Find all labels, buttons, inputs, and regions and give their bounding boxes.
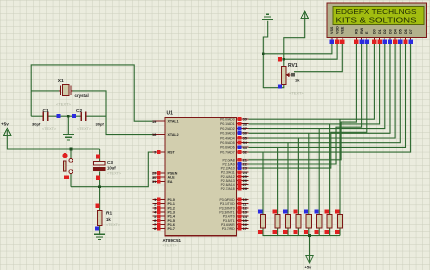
svg-text:P0.2/AD2: P0.2/AD2 <box>220 127 235 131</box>
svg-text:<TEXT>: <TEXT> <box>163 243 178 247</box>
svg-text:VDD: VDD <box>335 26 339 34</box>
svg-text:C2: C2 <box>76 108 82 114</box>
wire RS net (U1 P2.0 to LCD RS) <box>249 44 357 160</box>
svg-text:10uf: 10uf <box>107 165 116 170</box>
LCD pin RW <box>359 27 364 44</box>
pin 33 P0.6/AD6 <box>220 145 248 150</box>
pin 14 P3.4/T0 <box>223 214 249 219</box>
pin 11 P3.1/TXD <box>220 201 249 206</box>
svg-text:X1: X1 <box>58 78 64 84</box>
pin 25 P2.4/A12 <box>221 174 249 179</box>
svg-text:P0.5/AD5: P0.5/AD5 <box>220 141 235 145</box>
capacitor C1 <box>32 108 57 131</box>
power +5v (left, up arrow) <box>1 122 11 136</box>
LCD pin D4 <box>393 28 398 44</box>
pin 2 P1.1 <box>153 201 175 206</box>
wire ground net to RV1 bottom <box>263 21 284 88</box>
pin 31 EA <box>152 179 173 184</box>
resistor RN4 (pull-up) <box>294 209 302 234</box>
svg-text:17: 17 <box>243 226 247 231</box>
wire P0.6 net (U1 P0.6 to LCD D6 and pull-up resistor 2) <box>249 44 406 215</box>
pin 30 ALE <box>152 175 175 180</box>
pin 18 XTAL2 <box>152 132 179 137</box>
LCD pin VEE <box>340 26 345 44</box>
IC U1 AT89C51 microcontroller body <box>163 111 237 248</box>
wire LCD VEE to RV1 wiper <box>294 44 342 72</box>
wire E net (U1 P2.2 to LCD E) <box>249 44 367 168</box>
wire LCD VDD to +5v net <box>284 44 337 59</box>
svg-text:1k: 1k <box>295 77 300 82</box>
wire crystal left to node <box>31 90 60 92</box>
svg-text:C1: C1 <box>43 108 49 114</box>
pin 24 P2.3/A11 <box>221 170 249 175</box>
ground (below R1) <box>94 234 105 239</box>
svg-text:+5v: +5v <box>305 265 313 270</box>
svg-text:P0.7/AD7: P0.7/AD7 <box>220 150 235 154</box>
potentiometer RV1 <box>278 57 305 95</box>
wire +5v power to RV1 top <box>284 13 305 67</box>
svg-text:<TEXT>: <TEXT> <box>289 92 304 96</box>
node junction +5v rail / button <box>70 148 73 151</box>
wire P0.7 net (U1 P0.7 to LCD D7 and pull-up resistor 1) <box>249 44 411 215</box>
svg-text:P0.6/AD6: P0.6/AD6 <box>220 146 235 150</box>
capacitor C2 <box>76 108 104 131</box>
pin 21 P2.0/A8 <box>223 157 249 162</box>
LCD module LM016L body <box>327 3 426 38</box>
wire RST net (reset node to U1 RST) <box>71 152 153 187</box>
svg-text:P0.4/AD4: P0.4/AD4 <box>220 136 235 140</box>
pin 36 P0.3/AD3 <box>220 131 248 136</box>
node junction ground net / VSS <box>262 52 265 55</box>
svg-text:U1: U1 <box>167 111 174 117</box>
wire XTAL1 net (top rail from C1/X1 left to U1 XTAL1) <box>31 65 152 121</box>
LCD pin D2 <box>383 29 388 44</box>
resistor RN8 (pull-up) <box>335 209 343 234</box>
svg-text:<TEXT>: <TEXT> <box>107 171 122 175</box>
resistor RN2 (pull-up) <box>273 209 281 234</box>
LCD pin D6 <box>403 29 408 44</box>
pin 22 P2.1/A9 <box>223 162 249 167</box>
svg-text:RV1: RV1 <box>288 63 298 69</box>
capacitor C3 (electrolytic 10uf) <box>94 154 122 179</box>
pin 1 P1.0 <box>153 197 175 202</box>
svg-text:<TEXT>: <TEXT> <box>77 127 92 131</box>
wire C1 left <box>31 115 43 117</box>
svg-text:D5: D5 <box>399 29 403 34</box>
svg-text:D6: D6 <box>404 29 408 34</box>
svg-text:30pf: 30pf <box>96 121 105 126</box>
svg-text:<TEXT>: <TEXT> <box>56 102 72 107</box>
LCD screen with text <box>333 6 424 24</box>
wire P0.3 net (U1 P0.3 to LCD D3 and pull-up resistor 5) <box>249 44 391 215</box>
resistor RN7 (pull-up) <box>325 209 333 234</box>
resistor RN3 (pull-up) <box>283 209 291 234</box>
svg-text:P2.7/A15: P2.7/A15 <box>221 187 235 191</box>
LCD pin D3 <box>388 29 393 44</box>
wire node to R1 top <box>99 187 101 211</box>
pin 29 PSEN <box>152 171 178 176</box>
wire LCD VSS to ground net <box>263 44 332 54</box>
svg-text:RW: RW <box>360 27 364 34</box>
wire P0.1 net (U1 P0.1 to LCD D1 and pull-up resistor 7) <box>249 44 380 215</box>
svg-text:D7: D7 <box>409 29 413 34</box>
pin 10 P3.0/RXD <box>220 197 249 202</box>
svg-text:D2: D2 <box>383 29 387 34</box>
push button (reset) <box>62 153 72 179</box>
wire R1 bottom to ground <box>99 226 101 234</box>
pin 38 P0.1/AD1 <box>220 121 248 126</box>
node junction reset net / C3 <box>98 185 101 188</box>
wire P0.2 net (U1 P0.2 to LCD D2 and pull-up resistor 6) <box>249 44 385 215</box>
svg-text:RST: RST <box>168 151 176 155</box>
crystal X1 <box>56 78 89 107</box>
wire C3 bottom to node <box>99 171 101 186</box>
pin 39 P0.0/AD0 <box>220 117 248 122</box>
resistor R1 (1k) <box>95 204 121 231</box>
pin 23 P2.2/A10 <box>221 166 249 171</box>
wire button bottom to RST rail <box>70 174 72 187</box>
LCD pin D1 <box>377 29 382 44</box>
wire C2 right to XTAL2 net <box>86 115 106 117</box>
svg-text:VEE: VEE <box>341 26 345 34</box>
wire RW net (U1 P2.1 to LCD RW) <box>249 44 362 164</box>
node junction +5v net / VDD <box>282 58 285 61</box>
svg-text:KITS & SOLTIONS: KITS & SOLTIONS <box>336 15 417 24</box>
resistor RN5 (pull-up) <box>304 209 312 234</box>
pin 17 P3.7/RD <box>222 226 249 231</box>
resistor RN1 (pull-up) <box>258 209 266 234</box>
LCD pin D0 <box>372 29 377 44</box>
pin 28 P2.7/A15 <box>221 186 249 191</box>
svg-text:R1: R1 <box>106 211 112 217</box>
svg-text:1k: 1k <box>106 217 111 222</box>
wire +5v rail to button and C3 <box>7 130 99 149</box>
LCD pin RS <box>354 28 359 44</box>
pin 35 P0.4/AD4 <box>220 135 248 140</box>
pin 34 P0.5/AD5 <box>220 140 248 145</box>
svg-text:D1: D1 <box>378 29 382 34</box>
svg-text:RS: RS <box>355 28 359 34</box>
pin 9 RST <box>153 150 176 155</box>
LCD pin D7 <box>408 29 413 44</box>
LCD pin VDD <box>335 26 340 44</box>
svg-text:XTAL2: XTAL2 <box>168 133 179 137</box>
power +5v (bottom, down arrow for resistor network) <box>305 256 314 270</box>
LCD pin D5 <box>398 29 403 44</box>
svg-text:XTAL1: XTAL1 <box>168 120 179 124</box>
pin 19 XTAL1 <box>152 119 179 124</box>
svg-text:VSS: VSS <box>330 26 334 34</box>
resistor RN6 (pull-up) <box>314 209 322 234</box>
pin 15 P3.5/T1 <box>223 218 249 223</box>
svg-text:P0.1/AD1: P0.1/AD1 <box>220 122 235 126</box>
pin 6 P1.5 <box>153 218 175 223</box>
wire C3 top stub <box>99 149 101 161</box>
pin 37 P0.2/AD2 <box>220 126 248 131</box>
LCD pin E <box>365 31 370 44</box>
wire button top stub <box>70 149 72 159</box>
pin 4 P1.3 <box>153 210 175 215</box>
pin 3 P1.2 <box>153 206 175 211</box>
node C2 left state square (blue) <box>72 114 76 118</box>
ground (near LCD, feeds VSS and RV1 bottom) <box>262 14 273 19</box>
pin 5 P1.4 <box>153 214 175 219</box>
svg-text:30pf: 30pf <box>32 121 41 126</box>
pin 26 P2.5/A13 <box>221 178 249 183</box>
svg-text:P0.3/AD3: P0.3/AD3 <box>220 132 235 136</box>
node junction C1-C2 ground tap <box>67 115 70 118</box>
wire resistor network common rail to +5v <box>263 228 340 261</box>
wire P0.0 net (U1 P0.0 to LCD D0 and pull-up resistor 8) <box>249 44 375 215</box>
pin 8 P1.7 <box>153 226 175 231</box>
LCD pin VSS <box>330 26 335 44</box>
wire C1-C2 middle node with ground tap <box>48 116 81 134</box>
svg-text:D0: D0 <box>373 29 377 34</box>
ground (crystal circuit, between C1 and C2) <box>63 135 74 140</box>
svg-text:AT89C51: AT89C51 <box>163 238 182 243</box>
node junction resistor rail / +5v stem <box>308 234 311 237</box>
svg-text:EA: EA <box>168 180 173 184</box>
wire XTAL2 net (crystal right to U1 XTAL2) <box>71 91 152 135</box>
node C1 right state square (blue) <box>56 114 60 118</box>
svg-text:<TEXT>: <TEXT> <box>106 223 121 227</box>
pin 16 P3.6/WR <box>221 222 248 227</box>
pin 7 P1.6 <box>153 222 175 227</box>
power +5v (up arrow feeding VDD and RV1 top) <box>301 11 308 18</box>
pin 27 P2.6/A14 <box>221 182 249 187</box>
pin 12 P3.2/INT0 <box>219 206 248 211</box>
pin 13 P3.3/INT1 <box>219 210 248 215</box>
wire P0.4 net (U1 P0.4 to LCD D4 and pull-up resistor 4) <box>249 44 396 215</box>
svg-text:crystal: crystal <box>75 93 89 98</box>
svg-text:D3: D3 <box>388 29 392 34</box>
svg-text:P3.7/RD: P3.7/RD <box>222 227 235 231</box>
wire P0.5 net (U1 P0.5 to LCD D5 and pull-up resistor 3) <box>249 44 401 215</box>
svg-text:+5v: +5v <box>1 122 9 127</box>
svg-text:P0.0/AD0: P0.0/AD0 <box>220 118 235 122</box>
svg-text:P1.7: P1.7 <box>168 227 175 231</box>
pin 32 P0.7/AD7 <box>220 150 248 155</box>
svg-text:<TEXT>: <TEXT> <box>42 127 57 131</box>
